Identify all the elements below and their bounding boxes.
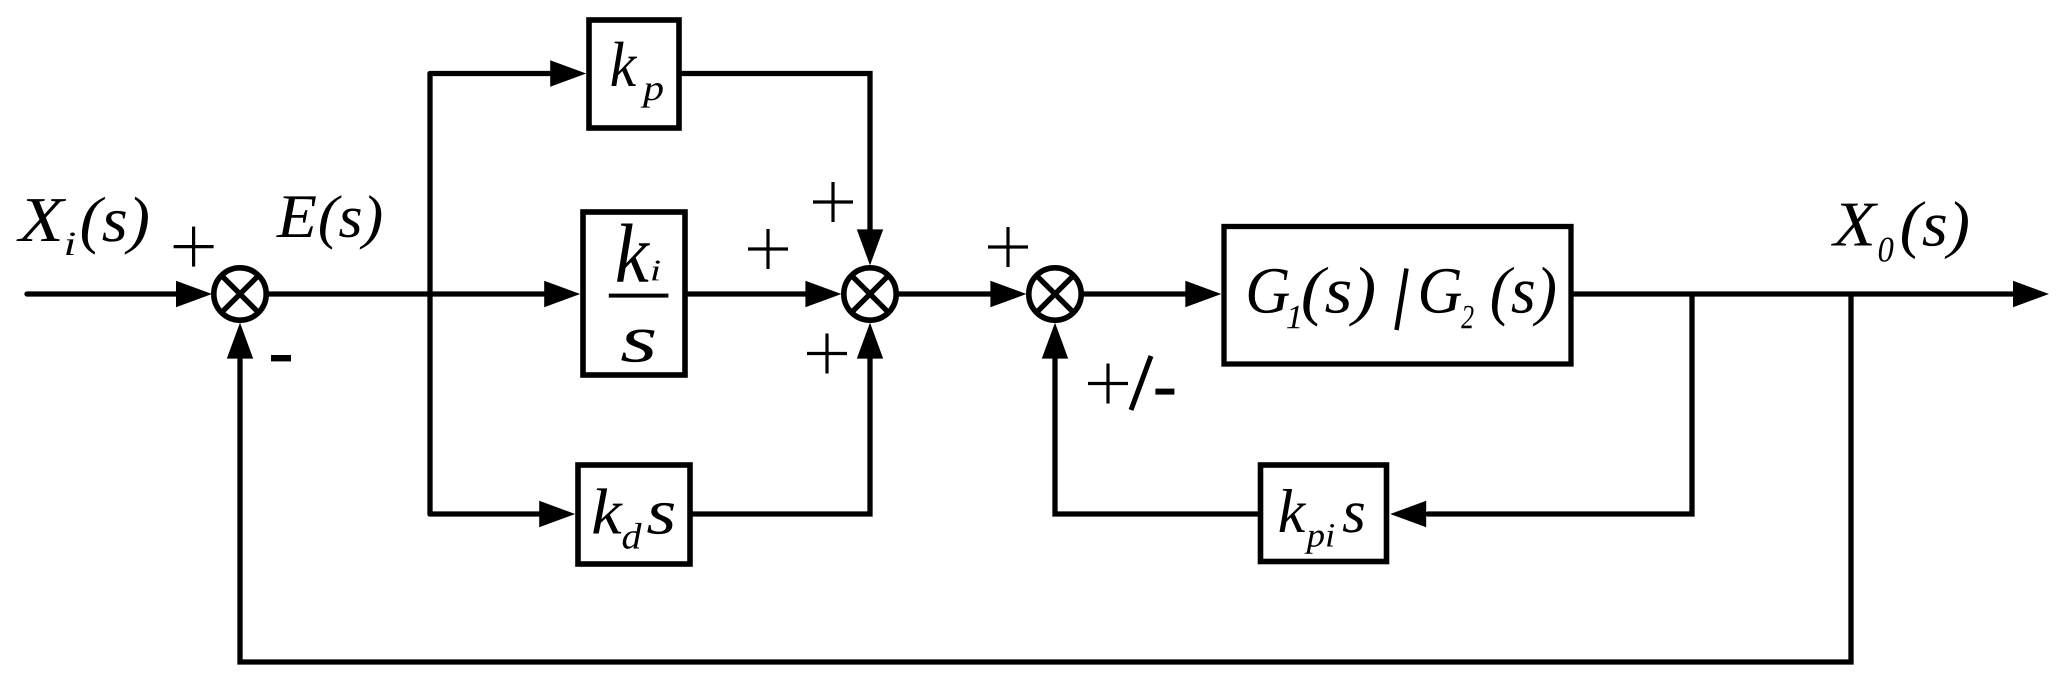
label E(s) E [276,196,316,237]
label Xo(s) sub 0 [1879,237,1894,261]
arrowhead into Ki block [544,281,580,307]
label Ki numerator k [617,224,650,282]
wire branch vertical at x=430 [427,74,432,515]
minus sign at SJ1 feedback [271,355,291,361]
label Kp sub p [641,83,663,108]
label G2 sub 2 [1461,306,1473,329]
block Kd s [578,465,690,564]
arrowhead output Xo(s) [2013,281,2049,307]
plus sign at SJ3 left input [988,245,1028,248]
arrowhead into SJ3 left [990,281,1026,307]
arrowhead into SJ3 bottom [1042,323,1068,359]
label Ki denominator s [621,329,654,362]
block Kpi s [1261,465,1387,562]
plus sign at SJ2 left input [748,247,788,250]
label Xo(s) (s) [1902,201,1968,259]
wire G output to Xo(s) [1574,291,2014,296]
wire SJ2 to SJ3 [899,291,992,296]
plus sign at SJ2 bottom input [807,352,847,355]
arrowhead into SJ1 bottom [227,323,253,359]
arrowhead into Kpi block [1390,501,1426,527]
arrowhead into SJ1 [176,281,212,307]
wire Ki output to SJ2 [688,291,807,296]
label G1 G [1249,269,1289,313]
wire Kd output to SJ2 bottom [693,358,870,514]
block Ki/s [583,212,685,375]
label G2 G [1421,269,1461,313]
minus sign of +/- label [1155,389,1174,395]
arrowhead into Kd block [539,501,575,527]
plus sign of +/- at SJ3 bottom [1088,382,1128,385]
slash of G1(s)/G2(s) [1397,269,1407,331]
summing junction SJ1 [214,268,266,320]
wire top branch into Kp [430,71,551,76]
arrowhead into SJ2 left [805,281,841,307]
arrowhead into SJ2 top [857,229,883,265]
wire inner feedback branch to Kpi [1428,294,1692,514]
plus sign at SJ2 top input [813,200,853,203]
wire SJ1 to Ki block (through branch node) [269,291,546,296]
summing junction SJ3 [1029,268,1081,320]
label Kpis k [1280,489,1307,532]
wire input Xi(s) [27,291,178,296]
arrowhead into G block [1185,281,1221,307]
label G2 (s) [1492,267,1555,327]
arrowhead into SJ2 bottom [857,323,883,359]
label Xi(s) sub i [66,232,75,255]
label E(s) (s) [320,195,381,249]
label G1 (s) [1303,267,1374,327]
slash of +/- label [1131,356,1151,410]
wire outer feedback loop [240,294,1851,662]
plus sign at SJ1 input [174,245,214,248]
wire Kpi output to SJ3 bottom [1055,358,1259,514]
label Kpis s [1343,503,1364,532]
fraction bar Ki/s [609,294,669,298]
label Xi(s) (s) [82,197,148,255]
arrowhead into Kp block [550,60,586,86]
label Kds s [647,503,674,534]
block G1(s)/G2(s) [1224,227,1571,365]
label Ki sub i [652,261,660,281]
summing junction SJ2 [844,268,896,320]
label Kpis sub pi [1304,524,1334,554]
label Xo(s) X [1831,204,1878,246]
wire Kp output to SJ2 top [682,74,870,230]
label Xi(s) X [16,199,66,241]
label Kds sub d [623,523,642,549]
label Kds k [593,488,623,533]
block Kp [589,20,679,128]
label G1 sub 1 [1287,306,1300,328]
label Kp value k [611,42,637,86]
wire bottom branch into Kd [430,511,540,516]
wire SJ3 to G block [1084,291,1187,296]
